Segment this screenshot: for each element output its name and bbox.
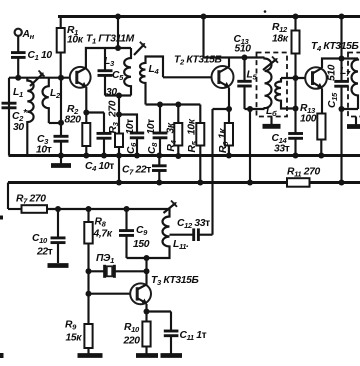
svg-text:10т: 10т <box>146 119 157 135</box>
node rail2 T4 tank <box>339 180 345 186</box>
node rail1 R6 <box>226 153 232 159</box>
capacitor C5 <box>98 48 125 98</box>
resistor R3 <box>108 96 124 183</box>
node rail1 C8 C7 <box>156 153 162 159</box>
node antenna/base wire junction <box>15 75 21 81</box>
resistor R7 <box>8 194 127 213</box>
wire T2 emitter <box>213 88 230 110</box>
svg-text:3к: 3к <box>166 122 177 133</box>
node rail1 R3 <box>116 153 122 159</box>
node top rail T1 tank <box>115 14 121 20</box>
resistor R6 <box>218 109 234 156</box>
node rail1 C14 <box>293 153 299 159</box>
wire T2 tank top <box>204 17 265 58</box>
svg-text:150: 150 <box>133 239 150 250</box>
node rail1 R2 <box>83 153 89 159</box>
transistor T4 КТ315Б <box>305 41 358 89</box>
svg-text:510: 510 <box>327 64 338 81</box>
resistor R9 <box>65 294 93 354</box>
shield box L7 <box>348 53 360 117</box>
resistor R12 <box>272 17 300 109</box>
svg-text:18к: 18к <box>272 34 289 45</box>
svg-text:С11 1т: С11 1т <box>180 330 207 342</box>
capacitor C13 <box>234 34 252 109</box>
node top rail T4 tank <box>339 14 345 20</box>
wire T1 collector <box>86 48 131 69</box>
ground below shield box <box>263 117 281 127</box>
node T4 tank top <box>339 56 345 62</box>
transistor T2 КТ315Б <box>174 55 234 89</box>
transistor T3 КТ315Б <box>130 275 198 304</box>
ground below rail1 left <box>51 156 71 166</box>
capacitor C8 <box>146 105 167 156</box>
node rail1 C4 <box>101 153 107 159</box>
node R12 base <box>293 75 299 81</box>
svg-text:10к: 10к <box>187 118 198 135</box>
svg-text:С12 33т: С12 33т <box>177 218 210 230</box>
wire T3 collector <box>145 259 147 285</box>
node C13 tank top <box>242 55 248 61</box>
node collector tank junction <box>115 45 121 51</box>
node rail1 C6 <box>134 153 140 159</box>
wire tank bottom to rail2 <box>249 109 251 183</box>
node R1 base junction <box>58 75 64 81</box>
ground below C11 <box>161 353 183 358</box>
svg-text:10т: 10т <box>36 145 52 156</box>
resistor R8 <box>84 209 112 294</box>
node crystal left <box>86 268 92 274</box>
capacitor C10 <box>32 209 66 263</box>
wire rail2 left drop <box>7 183 9 210</box>
wire T4 collector tank top <box>322 59 358 69</box>
svg-text:С4 10т: С4 10т <box>85 161 114 173</box>
node L2/C3/R1 junction <box>58 120 64 126</box>
antenna Ан <box>15 29 35 52</box>
resistor R4 <box>166 105 183 156</box>
wire T2 collector <box>228 58 230 68</box>
tuning arrow L5 <box>263 57 278 71</box>
node T3 emitter <box>144 309 150 315</box>
node C9 tank top <box>124 206 130 212</box>
resistor R13 <box>300 103 326 156</box>
capacitor C12 <box>170 218 213 241</box>
svg-text:10т: 10т <box>125 119 136 135</box>
wire T4 emitter <box>321 89 323 114</box>
wire ground bus rail1 <box>9 154 360 157</box>
ground below R9 <box>78 353 103 358</box>
ground below C10 <box>48 263 69 268</box>
svg-text:22т: 22т <box>36 247 53 258</box>
resistor R11 <box>287 167 321 187</box>
inductor L4 <box>140 57 163 105</box>
capacitor C1 <box>11 50 52 79</box>
svg-text:220: 220 <box>123 336 141 347</box>
node rail1 R4 <box>175 153 181 159</box>
svg-text:С1 10: С1 10 <box>28 50 53 62</box>
svg-text:33т: 33т <box>274 144 290 155</box>
node R12 L6 C14 <box>293 106 299 112</box>
node T3 base junction <box>86 291 92 297</box>
inductor L7 <box>340 59 358 110</box>
node rail2 R5 <box>197 180 203 186</box>
capacitor C7 <box>122 156 167 183</box>
wire L1 tank left branch <box>8 78 10 156</box>
svg-text:15к: 15к <box>66 333 83 344</box>
svg-text:30: 30 <box>13 122 24 133</box>
wire top supply rail <box>58 15 360 18</box>
crystal ПЭ1 <box>89 253 147 278</box>
svg-text:820: 820 <box>65 115 82 126</box>
inductor L2 <box>43 78 62 123</box>
node tank bottom R3 <box>116 93 122 99</box>
node R8 junction <box>86 206 92 212</box>
wire T2 base <box>163 76 212 78</box>
wire T1 base line <box>9 77 70 79</box>
svg-text:R11 270: R11 270 <box>287 167 321 179</box>
tuning arrow L1/L2 <box>30 71 45 87</box>
svg-text:С7 22т: С7 22т <box>122 165 151 177</box>
capacitor C11 <box>164 312 207 354</box>
svg-text:100: 100 <box>300 114 317 125</box>
wire T4 tank bottom to rail2 <box>340 109 342 183</box>
ground below shield box L7 <box>347 117 360 127</box>
node C10 junction <box>55 206 61 212</box>
node R4 junction <box>175 102 181 108</box>
node rail1 C3 <box>58 153 64 159</box>
node top rail R12 <box>293 14 299 20</box>
capacitor C9 <box>119 209 150 258</box>
svg-text:10к: 10к <box>67 35 84 46</box>
inductor L6 <box>266 78 306 118</box>
resistor R1 <box>57 17 84 79</box>
node crystal right collector <box>144 268 150 274</box>
wire T3 base <box>89 293 131 295</box>
node rail2 R3 <box>116 180 122 186</box>
wire tank top to rail <box>340 17 342 59</box>
shield box L5 L6 <box>257 53 288 117</box>
inductor L1 <box>13 78 34 156</box>
node emitter junction <box>83 110 89 116</box>
ground below R10 <box>136 353 158 358</box>
capacitor C6 <box>119 115 144 156</box>
wire T2 base bias node <box>146 103 201 105</box>
node rail1 R13 <box>318 153 324 159</box>
node tank bottom T3 collector <box>144 255 150 261</box>
inductor L3 <box>104 48 131 96</box>
wire C12 to T2 emitter <box>211 109 213 235</box>
wire T1 emitter <box>86 87 104 113</box>
inductor L11 <box>127 209 189 258</box>
resistor R5 <box>187 105 205 183</box>
wire T3 emitter <box>147 304 172 322</box>
svg-text:R7 270: R7 270 <box>16 194 46 206</box>
capacitor C15 <box>327 59 349 110</box>
tuning arrow L11 <box>164 201 178 214</box>
resistor R2 <box>65 104 91 156</box>
node T4 tank bottom <box>339 106 345 112</box>
edge marks <box>0 216 4 359</box>
node R3 C6 junction <box>116 112 122 118</box>
wire supply bus rail2 <box>8 181 360 184</box>
node top rail T2 <box>201 14 207 20</box>
tuning arrow L3/L4 <box>134 42 146 55</box>
svg-text:1к: 1к <box>218 128 229 139</box>
resistor R10 <box>123 322 151 354</box>
node C8 junction <box>157 102 163 108</box>
svg-text:510: 510 <box>235 44 252 55</box>
inductor L5 <box>245 58 272 110</box>
capacitor C14 <box>272 109 304 156</box>
speck <box>264 10 267 13</box>
transistor T1 ГТ311М <box>70 34 135 88</box>
svg-text:4,7к: 4,7к <box>93 229 113 240</box>
node tank bottom to rail2 <box>247 106 253 112</box>
capacitor C2 <box>2 103 28 133</box>
node rail2 C7 <box>156 180 162 186</box>
wire tank to top rail <box>117 17 119 49</box>
node T2 emitter junction <box>226 106 232 112</box>
node rail2 tank <box>247 180 253 186</box>
capacitor C3 <box>36 78 69 156</box>
capacitor C4 <box>85 113 114 174</box>
